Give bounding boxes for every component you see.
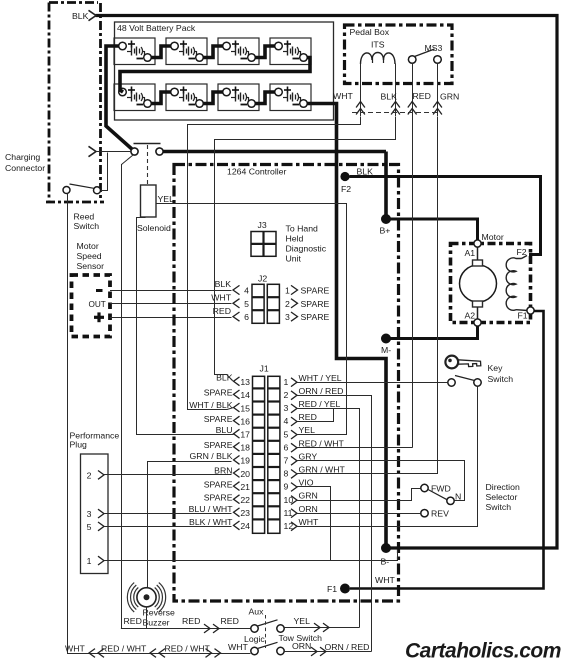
svg-text:BLU: BLU [216,425,233,435]
svg-text:20: 20 [240,469,250,479]
key shaft [458,360,481,367]
svg-text:6: 6 [244,312,249,322]
svg-text:Pedal Box: Pedal Box [350,27,390,37]
svg-text:YEL: YEL [294,616,311,626]
svg-text:SPARE: SPARE [204,492,233,502]
pedal connector chevrons [356,102,365,108]
svg-text:BLU / WHT: BLU / WHT [189,504,234,514]
battery BT3 (row 1) [218,38,259,65]
svg-text:Switch: Switch [486,502,512,512]
svg-text:RED: RED [124,616,142,626]
wire battery pack positive (B1+ to solenoid contact) [106,46,133,150]
arrow charging connector contact [89,146,97,156]
wire aux to YEL corner [284,627,359,629]
svg-text:24: 24 [240,521,250,531]
arrow chevron BLK top-left [89,10,97,20]
svg-text:J2: J2 [258,274,267,284]
reed switch contact left [63,187,70,194]
svg-text:ORN / RED: ORN / RED [325,642,370,652]
direction selector blade [428,490,447,500]
wire MS3 leg green [437,63,439,116]
battery BT4 (row 1) [270,38,311,65]
wire charge contact to solenoid stud [96,151,131,153]
wire field coil bottom to F1 [516,309,528,312]
wire battery pack negative (row2 B4- down to B-) [307,104,387,549]
wire J1-19 GRN/BLK to buzzer [148,462,232,588]
svg-text:1: 1 [87,556,92,566]
svg-text:GRY: GRY [299,451,318,461]
svg-text:21: 21 [240,482,250,492]
48 volt battery pack box [115,22,334,120]
key switch contact left [448,379,455,386]
battery BT8 (row 2) [270,84,311,111]
svg-text:OUT: OUT [89,300,106,309]
svg-text:GRN / BLK: GRN / BLK [190,451,233,461]
svg-text:F2: F2 [517,247,527,257]
motor terminal F1 [527,307,534,314]
svg-text:3: 3 [285,312,290,322]
svg-text:RED / WHT: RED / WHT [299,438,345,448]
wire J1-3 RED/YEL to aux [297,409,360,628]
chevrons YEL [314,623,320,632]
wire battery jumper row1 2-3 [203,46,224,58]
battery BT7 (row 2) [218,84,259,111]
solenoid plunger dashed link [147,145,149,185]
wire perf-3 to J1-23 BLU/WHT [104,513,232,515]
svg-text:WHT: WHT [299,517,319,527]
terminal M- [381,334,391,344]
wire J1-2 ORN/RED to tow switch [297,396,372,652]
svg-text:Sensor: Sensor [77,261,105,271]
svg-text:J1: J1 [260,364,269,374]
svg-text:1264 Controller: 1264 Controller [227,167,287,177]
motor speed sensor box (dashed) [72,275,111,337]
svg-text:Charging: Charging [5,152,40,162]
svg-text:RED: RED [299,412,317,422]
svg-text:7: 7 [284,456,289,466]
motor terminal A1 [474,240,481,247]
key icon [445,356,458,369]
svg-text:A1: A1 [465,248,476,258]
svg-text:ORN: ORN [299,504,318,514]
svg-text:YEL: YEL [158,194,175,204]
svg-text:8: 8 [284,469,289,479]
svg-text:F1: F1 [518,311,528,321]
svg-text:2: 2 [87,470,92,480]
wire pedal WHT to J1-15 [188,117,361,410]
wire sensor minus to J2-4 [110,290,232,292]
svg-text:BRN: BRN [214,465,232,475]
wire pedal RED / key switch / J1-6 vertical [412,116,414,448]
pedal box (dash-dot outline) [345,25,453,84]
chevrons ORN [311,647,317,656]
svg-text:48 Volt Battery Pack: 48 Volt Battery Pack [117,23,196,33]
svg-text:Held: Held [286,234,304,244]
wire MS3 leg red [412,63,414,116]
svg-text:SPARE: SPARE [301,312,330,322]
microswitch MS3 contact right [434,56,442,64]
wire battery jumper row1 3-4 [255,46,276,58]
aux switch contact left [251,625,258,632]
svg-text:SPARE: SPARE [204,388,233,398]
1264 controller box (dash-dot outline) [174,165,399,602]
wire pedal GRN to J1-8 [297,117,438,474]
svg-text:BLK: BLK [215,279,232,289]
svg-text:13: 13 [240,377,250,387]
svg-text:Switch: Switch [74,221,100,231]
svg-text:RED / WHT: RED / WHT [165,644,211,654]
svg-text:SPARE: SPARE [301,286,330,296]
svg-text:Cartaholics.com: Cartaholics.com [405,640,561,661]
svg-text:Connector: Connector [5,163,45,173]
chevrons RED run [204,624,210,633]
svg-text:Motor: Motor [482,232,504,242]
svg-text:22: 22 [240,495,250,505]
svg-text:4: 4 [284,416,289,426]
wire perf-5 to J1-24 BLK/WHT [104,526,232,528]
svg-text:Motor: Motor [77,241,99,251]
svg-text:ITS: ITS [371,40,385,50]
svg-text:SPARE: SPARE [204,414,233,424]
svg-text:RED: RED [413,91,431,101]
svg-text:A2: A2 [465,311,476,321]
motor brush bottom [473,301,483,307]
wire tow to ORN/RED corner [284,651,371,653]
microswitch MS3 contact left [408,56,416,64]
svg-text:SPARE: SPARE [204,479,233,489]
aux switch blade [258,620,278,626]
svg-text:SPARE: SPARE [301,299,330,309]
tow switch contact left [251,647,258,654]
chevrons WHT row [89,649,95,658]
wire YEL solenoid coil to J1-5 [157,204,347,435]
svg-text:Diagnostic: Diagnostic [286,244,327,254]
wire J1-9 VIO to perf-1 run [297,487,331,561]
inductive throttle sensor ITS coil [361,53,396,65]
microswitch MS3 blade [415,49,435,57]
svg-text:16: 16 [240,416,250,426]
svg-text:ORN / RED: ORN / RED [299,386,344,396]
svg-text:Direction: Direction [486,482,520,492]
battery BT1 (row 1) [114,38,155,65]
wire perf-2 to J1-20 BRN [104,474,232,476]
wire BLK main loop (battery negative return, top/right/B- run) [96,16,558,549]
solenoid contact stud right [156,148,163,155]
svg-text:WHT: WHT [228,642,248,652]
motor brush top [473,260,483,266]
svg-text:Selector: Selector [486,492,518,502]
wire J1-4 RED joins J1-3 [297,409,334,422]
motor terminal A2 [474,319,481,326]
svg-text:B+: B+ [380,226,391,236]
wire main controller vertical to B+ [384,152,388,219]
svg-text:BLK: BLK [72,11,89,21]
motor box (dash-dot outline) [451,244,531,323]
wire battery row1-to-row2 crossover [120,58,310,93]
svg-text:1: 1 [285,286,290,296]
svg-text:2: 2 [284,390,289,400]
tow switch contact right [277,647,284,654]
svg-text:SPARE: SPARE [204,440,233,450]
wire perf-1 to B- [105,550,398,561]
svg-text:5: 5 [244,299,249,309]
wire battery jumper row1 1-2 [151,46,172,58]
svg-text:WHT / BLK: WHT / BLK [189,400,232,410]
svg-text:ORN: ORN [292,641,311,651]
motor field coil [506,258,521,310]
aux switch contact right [277,625,284,632]
svg-text:B-: B- [381,557,390,567]
svg-text:WHT / YEL: WHT / YEL [299,373,342,383]
battery BT6 (row 2) [166,84,207,111]
wire battery jumper row2 2-3 [203,92,224,104]
direction selector N contact [447,497,454,504]
wire buzzer to RED run [146,607,148,629]
svg-text:1: 1 [284,377,289,387]
terminal B- [381,543,391,553]
svg-text:9: 9 [284,482,289,492]
reverse buzzer [137,588,156,607]
gang link aux/tow dashed [265,615,267,648]
svg-text:YEL: YEL [299,425,316,435]
solenoid coil body [141,185,157,217]
reed switch blade [70,184,94,188]
svg-text:15: 15 [240,403,250,413]
wire B+ to motor A1 [386,219,478,240]
wire J1-6 RED/WHT stub [297,447,413,449]
terminal F2 [340,172,349,181]
svg-text:5: 5 [284,429,289,439]
tow switch blade [258,642,278,648]
motor armature [460,265,497,302]
svg-text:GRN: GRN [440,92,459,102]
wire pedal BLK to J1-13 [215,117,396,375]
svg-text:Speed: Speed [77,251,102,261]
svg-text:Solenoid: Solenoid [137,223,171,233]
direction selector REV contact [421,510,428,517]
terminal B+ [381,214,391,224]
solenoid contact bar [134,143,161,145]
svg-text:GRN: GRN [299,491,318,501]
key switch contact right [474,379,481,386]
svg-text:M-: M- [381,345,391,355]
wire ITS leg black [395,64,397,117]
wire solenoid stud to buzzer RED run (jog + long vertical) [122,155,134,165]
svg-text:3: 3 [87,509,92,519]
svg-text:Aux: Aux [249,607,265,617]
svg-text:F1: F1 [327,584,337,594]
wire battery jumper row2 1-2 [151,92,172,104]
svg-text:6: 6 [284,442,289,452]
svg-text:Key: Key [488,363,504,373]
battery BT5 (row 2) [114,84,155,111]
wire charge to reed switch (drop) [101,153,108,191]
wire F2 to motor field (BLK) [350,177,541,255]
wire key switch to J1-12 WHT [297,387,478,527]
svg-text:WHT: WHT [65,644,85,654]
svg-text:RED: RED [182,616,200,626]
svg-text:4: 4 [244,286,249,296]
battery BT2 (row 1) [166,38,207,65]
wire sensor plus to J2-6 [110,317,232,319]
wire sensor out to J2-5 [110,303,232,305]
svg-text:FWD: FWD [431,484,451,494]
svg-text:5: 5 [87,522,92,532]
wire J1-1 WHT/YEL to key switch [297,382,448,384]
svg-text:RED: RED [213,306,231,316]
terminal F1 [340,584,350,594]
wire reed switch left to bottom WHT run [68,194,251,654]
pedal connector dashed separator [352,112,440,114]
key switch blade [455,376,475,381]
charging connector receptacle (dash-dot outline) [49,1,98,4]
svg-text:Reed: Reed [74,212,95,222]
svg-text:RED / YEL: RED / YEL [299,399,341,409]
direction selector FWD contact [421,484,428,491]
performance plug box [81,454,109,574]
wire solenoid output to B+ (thick) [163,150,386,154]
solenoid contact stud left [131,148,138,155]
label sensor plus [94,316,104,319]
svg-text:REV: REV [431,509,449,519]
svg-text:14: 14 [240,390,250,400]
wire ITS leg white [360,64,362,117]
svg-text:WHT: WHT [333,91,353,101]
svg-text:To Hand: To Hand [286,224,319,234]
svg-text:17: 17 [240,430,250,440]
svg-text:23: 23 [240,508,250,518]
wire J1-7 GRY to N [297,461,465,501]
svg-text:19: 19 [240,456,250,466]
svg-text:BLK: BLK [381,92,398,102]
label sensor minus [96,289,103,292]
wire field coil top to F2 [522,256,528,259]
wire J1-10 GRN to FWD [297,489,421,501]
svg-text:RED: RED [221,616,239,626]
svg-text:Switch: Switch [488,374,514,384]
svg-text:F2: F2 [341,184,351,194]
svg-text:3: 3 [284,403,289,413]
wire RED run to aux switch [121,628,251,630]
svg-text:WHT: WHT [375,575,395,585]
wire solenoid coil to J1-17 BLU [137,218,234,435]
wire M- to motor A2 [386,326,478,339]
reed switch contact right [94,187,101,194]
svg-text:J3: J3 [258,220,267,230]
wire A2 stem [477,307,479,320]
svg-text:Reverse: Reverse [143,608,176,618]
wire J1-11 ORN to REV [297,513,421,515]
svg-text:18: 18 [240,443,250,453]
svg-text:Plug: Plug [70,440,88,450]
svg-text:Unit: Unit [286,254,302,264]
wire A1 stem [477,246,479,260]
wire battery jumper row2 3-4 [255,92,276,104]
svg-text:2: 2 [285,299,290,309]
svg-text:RED / WHT: RED / WHT [101,644,147,654]
svg-text:BLK / WHT: BLK / WHT [189,517,233,527]
wire F1 to motor field (WHT) [350,311,544,589]
